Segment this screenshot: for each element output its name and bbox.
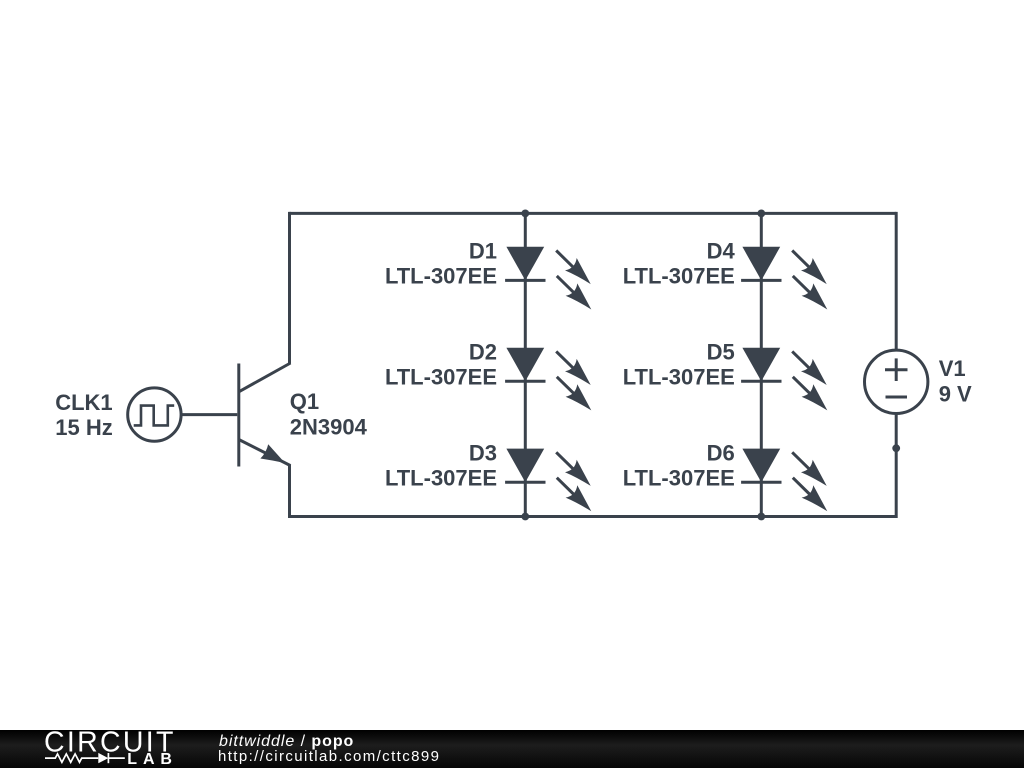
svg-text:D4: D4 xyxy=(707,239,736,264)
node junction right wire xyxy=(892,444,900,452)
node junction bottom column 2 xyxy=(757,513,765,521)
svg-text:LTL-307EE: LTL-307EE xyxy=(623,364,735,389)
wire top rail xyxy=(290,212,897,215)
node junction top column 1 xyxy=(521,210,529,218)
svg-text:9 V: 9 V xyxy=(939,381,972,406)
LED D5 xyxy=(741,348,827,411)
clock source CLK1 xyxy=(128,388,181,441)
svg-text:D3: D3 xyxy=(469,440,497,465)
node junction bottom column 1 xyxy=(521,513,529,521)
transistor Q1 xyxy=(239,363,291,467)
LED D1 xyxy=(505,247,591,310)
svg-text:Q1: Q1 xyxy=(290,389,319,414)
node junction top column 2 xyxy=(757,210,765,218)
svg-text:LAB: LAB xyxy=(127,751,178,768)
wire right vertical top (top rail to V1) xyxy=(895,212,898,350)
wire bottom rail xyxy=(288,515,896,518)
svg-text:LTL-307EE: LTL-307EE xyxy=(385,364,497,389)
wire right vertical bottom (V1 to bottom rail) xyxy=(895,414,898,519)
svg-text:15 Hz: 15 Hz xyxy=(55,415,112,440)
wire LED column 2 xyxy=(760,213,763,516)
voltage source V1 xyxy=(865,350,928,413)
svg-text:D6: D6 xyxy=(707,440,735,465)
svg-text:LTL-307EE: LTL-307EE xyxy=(385,465,497,490)
svg-text:LTL-307EE: LTL-307EE xyxy=(623,465,735,490)
svg-text:D2: D2 xyxy=(469,340,497,365)
wire LED column 1 xyxy=(524,213,527,516)
CircuitLab logo resistor-diode glyph xyxy=(45,753,125,763)
wire left vertical (emitter to bottom rail) xyxy=(288,465,291,518)
svg-text:V1: V1 xyxy=(939,356,966,381)
svg-text:D5: D5 xyxy=(707,340,735,365)
svg-text:http://circuitlab.com/cttc899: http://circuitlab.com/cttc899 xyxy=(218,748,440,765)
svg-text:LTL-307EE: LTL-307EE xyxy=(385,264,497,289)
LED D6 xyxy=(741,449,827,512)
footer bar xyxy=(0,730,1024,768)
svg-text:CLK1: CLK1 xyxy=(55,390,112,415)
LED D4 xyxy=(741,247,827,310)
svg-text:2N3904: 2N3904 xyxy=(290,415,368,440)
LED D3 xyxy=(505,449,591,512)
wire base (clock to Q1) xyxy=(181,413,237,416)
svg-text:LTL-307EE: LTL-307EE xyxy=(623,264,735,289)
LED D2 xyxy=(505,348,591,411)
svg-text:D1: D1 xyxy=(469,239,497,264)
wire left vertical (collector to top rail) xyxy=(288,212,291,364)
